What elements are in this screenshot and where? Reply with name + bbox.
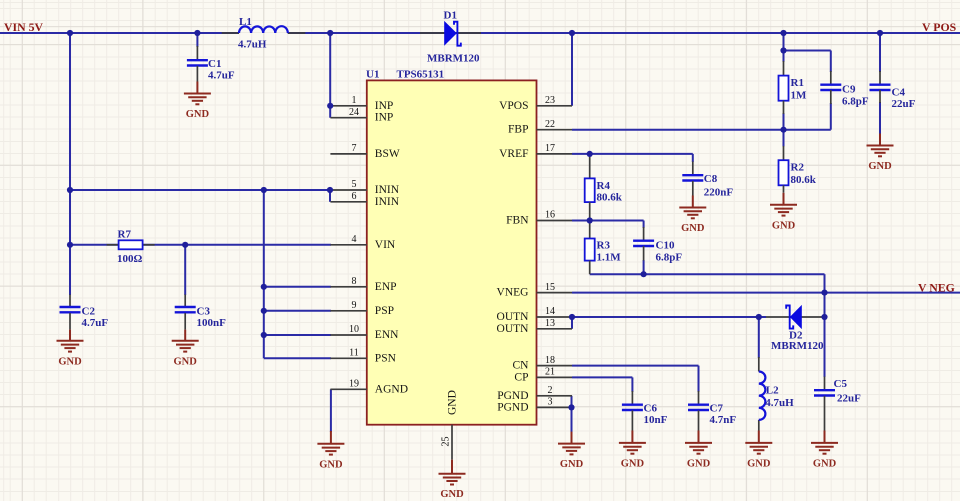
svg-text:AGND: AGND (375, 383, 408, 395)
inductor L2 (759, 357, 794, 431)
capacitor C6 (622, 403, 668, 427)
capacitor C9 (820, 84, 869, 108)
ground AGND (317, 444, 344, 471)
svg-text:8: 8 (352, 276, 357, 287)
pin 3 PGND stub (537, 406, 573, 408)
junction (67, 30, 73, 36)
ground stem C6 (631, 431, 633, 443)
svg-text:ENN: ENN (375, 329, 399, 341)
resistor R3 (585, 239, 622, 264)
svg-text:BSW: BSW (375, 148, 400, 160)
svg-text:ENP: ENP (375, 281, 397, 293)
svg-text:C8: C8 (704, 173, 718, 185)
svg-text:MBRM120: MBRM120 (771, 340, 824, 352)
resistor R4 bottom lead (589, 202, 591, 220)
pin 2 PGND stub (537, 395, 573, 397)
pin 10 ENN stub (330, 334, 366, 336)
svg-text:220nF: 220nF (704, 187, 734, 199)
capacitor C10 lower lead (643, 246, 645, 261)
junction (780, 47, 786, 53)
wire (264, 357, 331, 359)
pin 17 VREF stub (537, 153, 573, 155)
capacitor C9 lead (830, 71, 832, 85)
junction (261, 284, 267, 290)
wire (572, 292, 960, 294)
svg-text:4.7uF: 4.7uF (82, 317, 109, 329)
svg-text:24: 24 (349, 107, 359, 118)
svg-text:13: 13 (545, 318, 555, 329)
svg-text:GND: GND (440, 489, 464, 500)
wire (698, 366, 700, 392)
junction (569, 30, 575, 36)
capacitor C7 lead (698, 391, 700, 405)
svg-text:GND: GND (772, 220, 796, 231)
wire (590, 273, 825, 275)
pin 14 OUTN stub (537, 316, 573, 318)
wire (329, 33, 331, 118)
junction (569, 314, 575, 320)
capacitor C3 lead (184, 295, 186, 308)
svg-text:OUTN: OUTN (497, 323, 530, 335)
wire (572, 129, 831, 131)
pin 9 PSP stub (330, 310, 366, 312)
svg-text:VPOS: VPOS (499, 100, 528, 112)
svg-text:22uF: 22uF (892, 98, 916, 110)
svg-text:3: 3 (548, 397, 553, 408)
svg-text:14: 14 (545, 306, 555, 317)
svg-text:80.6k: 80.6k (791, 174, 817, 186)
junction (327, 103, 333, 109)
junction (568, 404, 574, 410)
svg-text:FBN: FBN (506, 215, 529, 227)
wire (572, 316, 766, 318)
wire (184, 245, 186, 295)
resistor R3 top lead (589, 221, 591, 239)
pin 4 VIN stub (330, 244, 366, 246)
svg-text:1M: 1M (791, 90, 808, 102)
wire (571, 317, 573, 329)
capacitor C9 lower lead (830, 90, 832, 104)
inductor L1 (222, 16, 306, 51)
svg-text:18: 18 (545, 355, 555, 366)
wire (643, 260, 645, 274)
capacitor C1 lead (196, 46, 198, 60)
pin 15 VNEG stub (537, 292, 573, 294)
svg-text:R4: R4 (597, 180, 611, 192)
svg-text:17: 17 (545, 143, 555, 154)
svg-text:25: 25 (441, 437, 452, 447)
svg-text:OUTN: OUTN (497, 311, 530, 323)
svg-text:VNEG: VNEG (497, 287, 529, 299)
capacitor C3 lower lead (184, 313, 186, 330)
svg-text:INP: INP (375, 100, 394, 112)
ground stem C1 (196, 82, 198, 94)
capacitor C10 lead (643, 227, 645, 241)
junction (261, 187, 267, 193)
svg-text:10nF: 10nF (644, 414, 668, 426)
svg-text:R1: R1 (791, 77, 804, 89)
wire (263, 190, 265, 358)
svg-text:CP: CP (514, 371, 528, 383)
wire (572, 365, 699, 367)
wire (571, 396, 573, 432)
wire (70, 244, 331, 246)
svg-text:23: 23 (545, 95, 555, 106)
wire (329, 190, 331, 202)
wire (264, 310, 331, 312)
wire (783, 33, 785, 62)
svg-text:C3: C3 (197, 306, 211, 318)
junction (194, 30, 200, 36)
svg-text:VREF: VREF (499, 148, 528, 160)
svg-text:FBP: FBP (508, 124, 528, 136)
svg-text:VIN: VIN (375, 239, 396, 251)
ground stem C3 (184, 330, 186, 341)
junction (67, 187, 73, 193)
svg-text:R2: R2 (791, 162, 805, 174)
pin 7 BSW stub (330, 153, 366, 155)
wire (783, 113, 785, 147)
capacitor C6 lead (631, 391, 633, 405)
svg-text:5: 5 (352, 179, 357, 190)
junction (877, 30, 883, 36)
svg-text:100Ω: 100Ω (117, 253, 143, 265)
wire (571, 33, 573, 106)
svg-text:ININ: ININ (375, 196, 400, 208)
svg-text:V POS: V POS (922, 20, 957, 34)
pin 23 VPOS stub (537, 105, 573, 107)
svg-text:INP: INP (375, 112, 394, 124)
capacitor C8 lower lead (692, 181, 694, 196)
ground C5 (811, 443, 838, 470)
wire (572, 220, 644, 222)
svg-text:80.6k: 80.6k (597, 192, 623, 204)
resistor R7 (107, 229, 155, 265)
svg-text:PSP: PSP (375, 305, 394, 317)
wire (70, 189, 330, 191)
ground C1 (184, 94, 211, 121)
svg-text:1.1M: 1.1M (597, 252, 622, 264)
svg-text:2: 2 (548, 385, 553, 396)
svg-text:ININ: ININ (375, 184, 400, 196)
junction (261, 332, 267, 338)
pin 18 CN stub (537, 365, 573, 367)
ground U1 pin25 (439, 474, 466, 501)
ground PGND (558, 444, 585, 471)
junction (821, 314, 827, 320)
capacitor C4 (870, 85, 916, 110)
ground stem R2 (783, 193, 785, 205)
svg-text:C4: C4 (892, 87, 906, 99)
junction (587, 151, 593, 157)
junction (780, 127, 786, 133)
wire (631, 377, 633, 392)
svg-text:GND: GND (58, 356, 82, 367)
capacitor C3 (175, 306, 226, 330)
capacitor C5 lower lead (824, 396, 826, 431)
svg-text:100nF: 100nF (197, 317, 227, 329)
capacitor C8 (682, 173, 733, 199)
capacitor C5 lead (824, 377, 826, 391)
svg-text:9: 9 (352, 300, 357, 311)
capacitor C8 lead (692, 162, 694, 176)
svg-text:GND: GND (447, 390, 459, 415)
resistor R2 (779, 160, 817, 186)
resistor R4 (585, 178, 623, 203)
ground stem C8 (692, 196, 694, 208)
resistor R4 top lead (589, 154, 591, 179)
capacitor C5 (814, 378, 861, 405)
capacitor C10 (633, 240, 682, 264)
svg-text:4.7nF: 4.7nF (710, 414, 737, 426)
ground stem C7 (698, 431, 700, 443)
capacitor C7 lower lead (698, 411, 700, 431)
svg-text:L2: L2 (766, 385, 779, 397)
junction (261, 308, 267, 314)
pin 1 INP stub (330, 105, 366, 107)
pin 6 ININ stub (330, 201, 366, 203)
ground stem C2 (69, 330, 71, 341)
capacitor C4 lower lead (879, 90, 881, 103)
svg-text:1: 1 (352, 95, 357, 106)
capacitor C1 (187, 58, 235, 82)
diode D1 (420, 10, 481, 65)
ground C2 (57, 341, 84, 368)
wire (69, 33, 71, 295)
svg-text:R3: R3 (597, 240, 611, 252)
wire (824, 274, 826, 377)
capacitor C2 (60, 306, 109, 330)
svg-text:VIN 5V: VIN 5V (4, 20, 43, 34)
pin 24 INP stub (330, 117, 366, 119)
wire (758, 317, 760, 358)
svg-text:GND: GND (747, 458, 771, 469)
wire (196, 33, 198, 47)
pin 22 FBP stub (537, 129, 573, 131)
svg-text:GND: GND (687, 458, 711, 469)
svg-text:PGND: PGND (497, 401, 528, 413)
svg-text:C5: C5 (834, 378, 848, 390)
pin 8 ENP stub (330, 286, 366, 288)
svg-text:GND: GND (868, 161, 892, 172)
svg-text:GND: GND (319, 459, 343, 470)
svg-text:22uF: 22uF (837, 393, 861, 405)
resistor R1 (779, 76, 808, 102)
svg-text:4.7uF: 4.7uF (208, 70, 235, 82)
pin 13 OUTN stub (537, 328, 573, 330)
ground stem L2 (758, 431, 760, 443)
svg-text:R7: R7 (118, 229, 132, 241)
pin 5 ININ stub (330, 189, 366, 191)
diode D2 (766, 305, 825, 352)
pin 16 FBN stub (537, 220, 573, 222)
svg-text:PGND: PGND (497, 390, 528, 402)
pin 25 GND stub (451, 425, 453, 460)
svg-text:U1: U1 (366, 69, 379, 81)
svg-text:6: 6 (352, 191, 357, 202)
wire (830, 103, 832, 130)
ground stem C5 (824, 431, 826, 443)
ground stem PGND (571, 432, 573, 444)
wire (288, 32, 960, 34)
svg-text:CN: CN (513, 360, 530, 372)
ground C4 (867, 146, 894, 173)
svg-text:TPS65131: TPS65131 (397, 69, 445, 81)
junction (587, 217, 593, 223)
wire (784, 50, 831, 52)
svg-text:GND: GND (560, 459, 584, 470)
svg-text:11: 11 (349, 348, 359, 359)
svg-text:4.7uH: 4.7uH (765, 397, 794, 409)
pin 19 AGND stub (330, 388, 366, 390)
resistor R1 top lead (783, 61, 785, 76)
op-amp U1 TPS65131 body (367, 80, 537, 424)
junction (641, 271, 647, 277)
wire (572, 376, 632, 378)
junction (756, 314, 762, 320)
junction (780, 30, 786, 36)
svg-text:C9: C9 (842, 84, 856, 96)
junction (67, 242, 73, 248)
junction (821, 290, 827, 296)
wire (879, 33, 881, 72)
svg-text:C2: C2 (82, 306, 96, 318)
resistor R3 bottom lead (589, 261, 591, 275)
ground C3 (172, 341, 199, 368)
ground R2 (770, 205, 797, 232)
capacitor C2 lower lead (69, 313, 71, 330)
resistor R1 bottom lead (783, 101, 785, 114)
svg-text:C10: C10 (656, 240, 675, 252)
wire (264, 334, 331, 336)
svg-text:L1: L1 (239, 16, 252, 28)
svg-text:V NEG: V NEG (918, 280, 955, 294)
svg-text:GND: GND (813, 458, 837, 469)
junction (327, 30, 333, 36)
svg-text:C7: C7 (710, 403, 724, 415)
capacitor C4 gnd lead (879, 134, 881, 146)
wire (643, 221, 645, 229)
svg-text:PSN: PSN (375, 352, 397, 364)
svg-text:MBRM120: MBRM120 (427, 53, 480, 65)
svg-text:GND: GND (681, 223, 705, 234)
svg-text:GND: GND (186, 109, 210, 120)
ground C8 (679, 208, 706, 235)
ground L2 (745, 443, 772, 470)
capacitor C6 lower lead (631, 411, 633, 431)
wire (264, 286, 331, 288)
svg-text:6.8pF: 6.8pF (656, 252, 683, 264)
resistor R2 bottom lead (783, 185, 785, 193)
capacitor C7 (688, 403, 736, 427)
svg-text:16: 16 (545, 210, 555, 221)
svg-text:6.8pF: 6.8pF (842, 96, 869, 108)
capacitor C2 lead (69, 295, 71, 308)
svg-text:4: 4 (352, 234, 357, 245)
junction (327, 187, 333, 193)
svg-text:22: 22 (545, 119, 555, 130)
wire (692, 154, 694, 162)
wire (0, 32, 239, 34)
svg-text:D1: D1 (444, 10, 457, 22)
capacitor C1 lower lead (196, 66, 198, 82)
resistor R2 top lead (783, 146, 785, 160)
ground stem AGND (330, 431, 332, 444)
svg-text:C1: C1 (208, 58, 221, 70)
ground C7 (685, 443, 712, 470)
svg-text:C6: C6 (644, 403, 658, 415)
wire (572, 153, 693, 155)
svg-text:4.7uH: 4.7uH (238, 39, 267, 51)
svg-text:21: 21 (545, 367, 555, 378)
svg-text:GND: GND (174, 356, 198, 367)
ground stem U1 pin25 (451, 460, 453, 474)
pin 21 CP stub (537, 376, 573, 378)
capacitor C4 lead (879, 71, 881, 85)
ground C6 (619, 443, 646, 470)
svg-text:10: 10 (349, 324, 359, 335)
wire (330, 389, 332, 432)
svg-text:7: 7 (352, 143, 357, 154)
svg-text:15: 15 (545, 282, 555, 293)
wire (830, 51, 832, 73)
pin 11 PSN stub (330, 357, 366, 359)
junction (182, 242, 188, 248)
wire (879, 102, 881, 134)
svg-text:GND: GND (621, 458, 645, 469)
svg-text:19: 19 (349, 379, 359, 390)
